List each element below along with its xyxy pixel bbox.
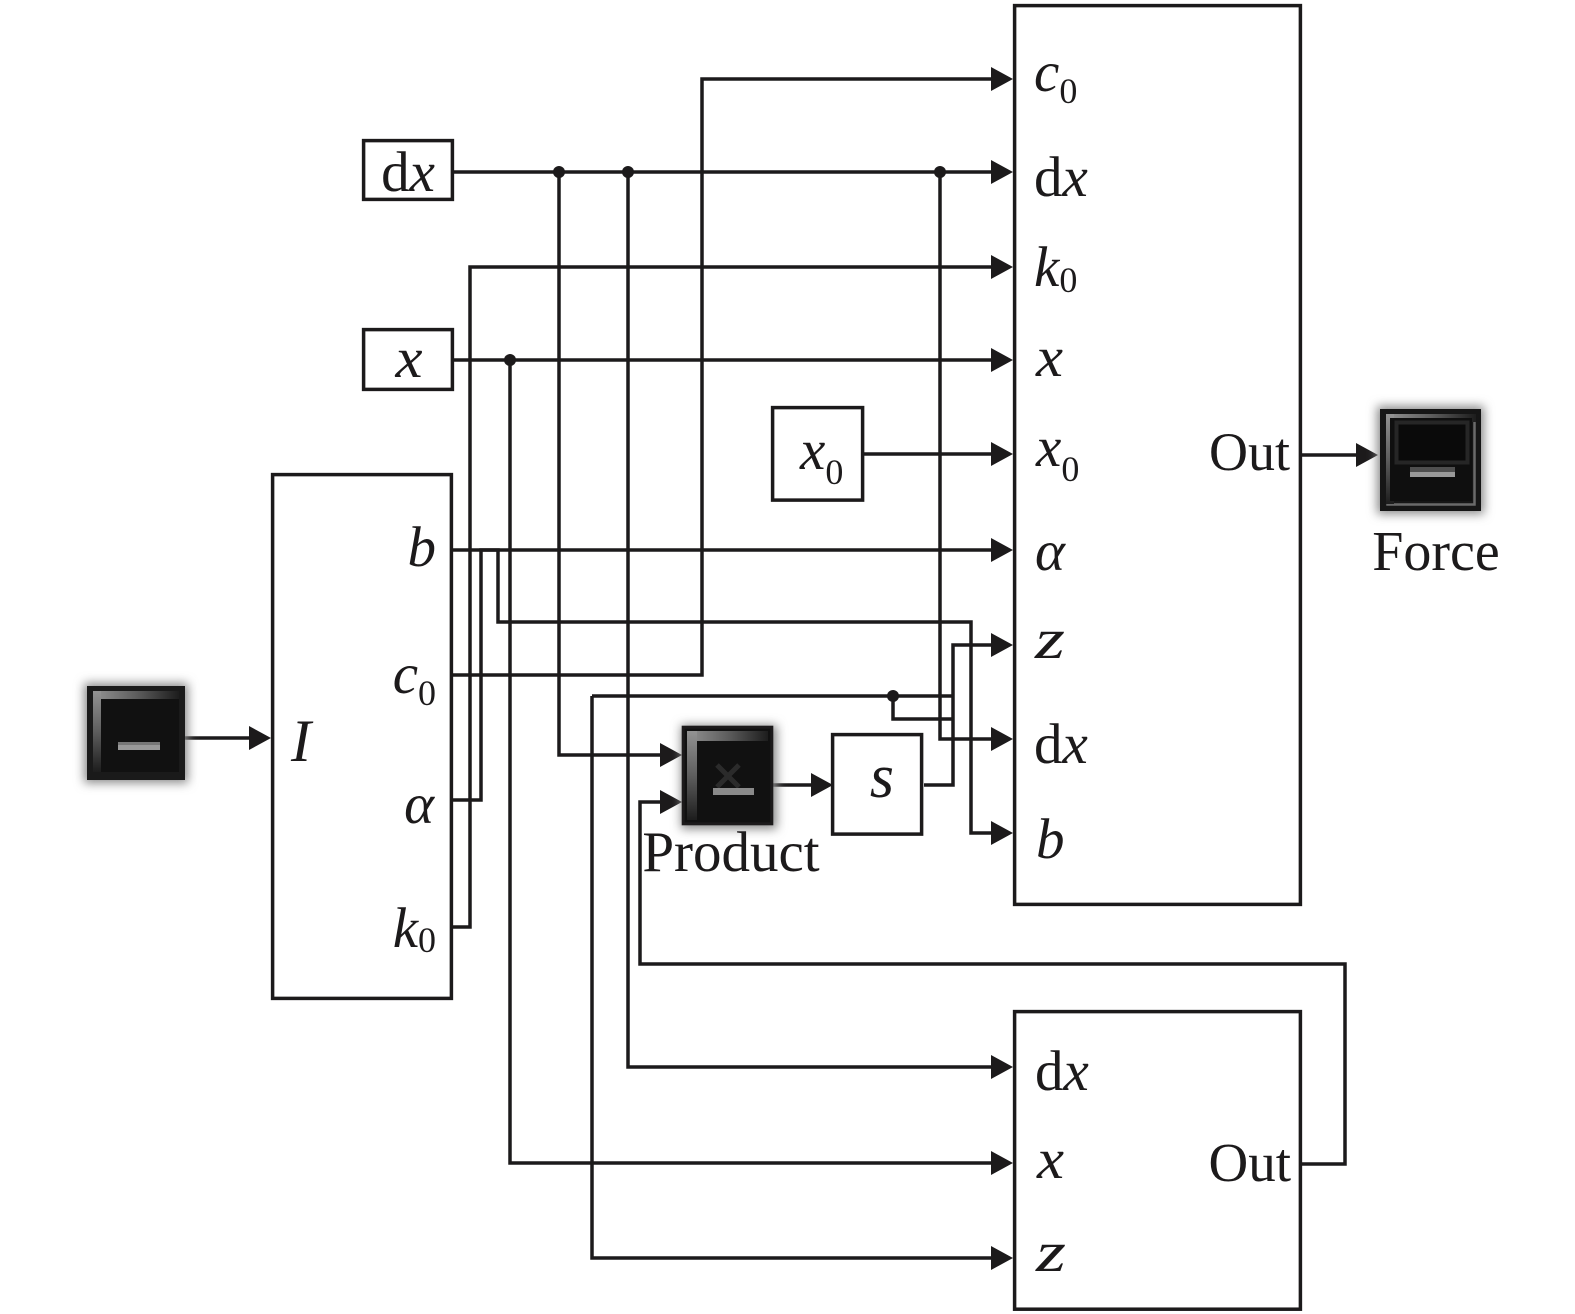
svg-text:dx: dx <box>1035 1040 1089 1103</box>
svg-text:x: x <box>394 327 422 390</box>
svg-text:dx: dx <box>381 141 435 204</box>
svg-text:b: b <box>1036 808 1065 871</box>
svg-text:Force: Force <box>1372 521 1500 583</box>
svg-text:I: I <box>290 708 314 774</box>
svg-text:dx: dx <box>1034 713 1088 776</box>
svg-text:Product: Product <box>642 821 819 884</box>
svg-text:α: α <box>1035 520 1066 583</box>
svg-text:Out: Out <box>1209 1132 1292 1193</box>
svg-text:z: z <box>1034 608 1065 671</box>
svg-text:x: x <box>1036 1128 1064 1191</box>
svg-text:s: s <box>870 743 894 811</box>
svg-text:x: x <box>1035 326 1063 389</box>
svg-text:dx: dx <box>1034 146 1088 209</box>
svg-text:Out: Out <box>1209 422 1290 482</box>
svg-text:z: z <box>1035 1221 1066 1284</box>
svg-text:α: α <box>404 773 435 836</box>
svg-text:b: b <box>408 516 437 579</box>
